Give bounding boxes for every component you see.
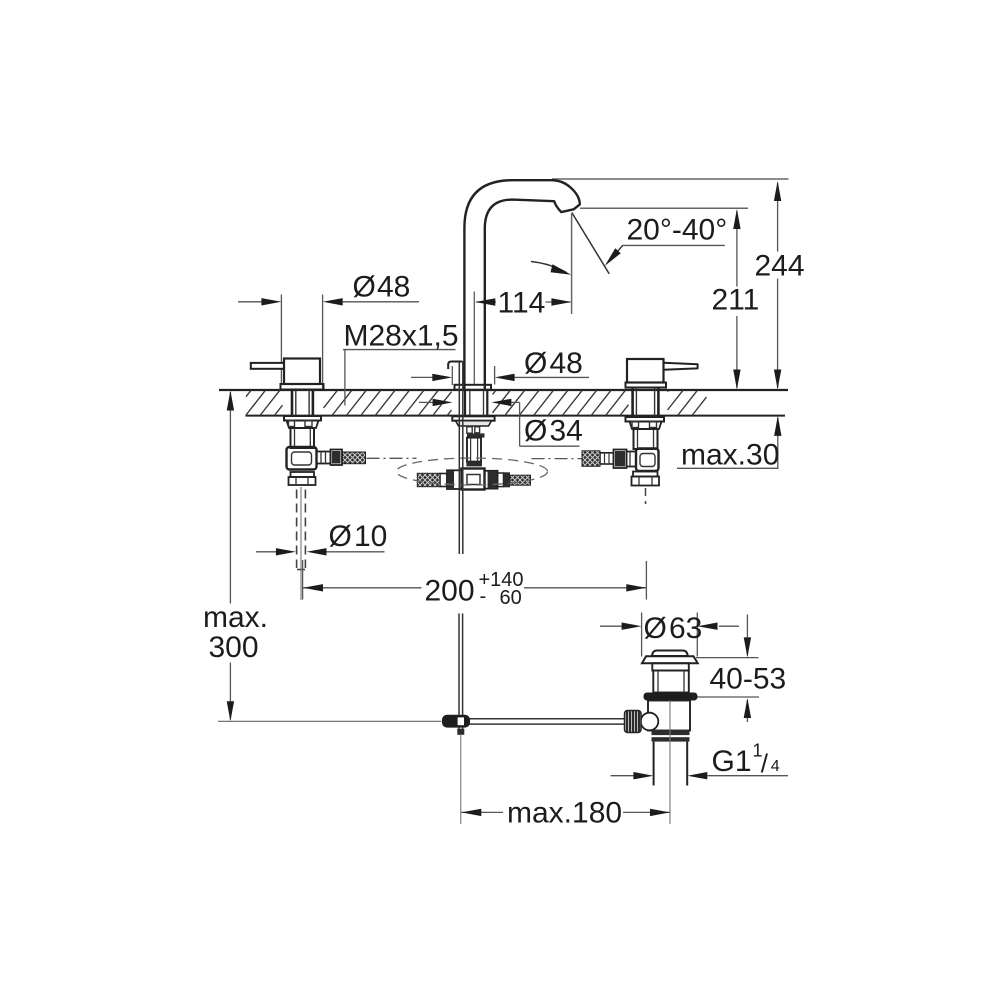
svg-text:48: 48 bbox=[550, 347, 583, 380]
svg-text:-: - bbox=[480, 586, 487, 608]
dimension dia10 bbox=[256, 551, 277, 553]
rod end cap bbox=[457, 729, 464, 735]
water stream angle line bbox=[572, 213, 609, 274]
mouth vertical extension line bbox=[571, 214, 573, 315]
left valve pipe centerline bbox=[300, 487, 302, 600]
right valve bottom nut bbox=[632, 477, 660, 486]
rod extension to max180 bbox=[460, 735, 462, 824]
dimension max.30 deck thickness bbox=[777, 418, 779, 469]
countertop deck top line bbox=[219, 389, 788, 391]
svg-text:Ø: Ø bbox=[524, 347, 547, 380]
dimension dia34 hole bbox=[419, 401, 434, 403]
left valve shank through deck bbox=[291, 390, 294, 416]
dimension 200 with tolerance bbox=[302, 560, 304, 600]
drain body bbox=[653, 671, 689, 693]
pop-up rod upper bbox=[458, 362, 460, 555]
dimension 244 bbox=[777, 183, 779, 252]
center locknut flange bbox=[452, 416, 494, 420]
left valve flange bbox=[281, 384, 324, 390]
angle arc with arrow bbox=[531, 262, 567, 273]
svg-text:max.180: max.180 bbox=[507, 797, 622, 830]
drain tailpipe bbox=[653, 742, 655, 786]
svg-text:40-53: 40-53 bbox=[710, 663, 787, 696]
drain flange bbox=[642, 656, 698, 663]
left valve body tube bbox=[291, 428, 315, 448]
left valve locknut flange below deck bbox=[284, 416, 321, 421]
left valve elbow bbox=[287, 447, 317, 470]
T-fitting block bbox=[462, 469, 485, 490]
svg-text:10: 10 bbox=[354, 520, 387, 553]
left valve bottom nut bbox=[289, 477, 316, 485]
svg-text:114: 114 bbox=[498, 287, 546, 320]
drain knurled knob bbox=[625, 711, 642, 733]
rod clamp bbox=[442, 715, 470, 728]
faucet spout body bbox=[464, 180, 579, 390]
left valve handle bbox=[251, 363, 284, 369]
svg-text:Ø: Ø bbox=[644, 612, 667, 645]
svg-text:48: 48 bbox=[377, 271, 410, 304]
deck hatching bbox=[246, 391, 707, 415]
countertop deck bottom line bbox=[246, 415, 786, 417]
right valve bottom ring bbox=[633, 472, 658, 477]
svg-text:Ø: Ø bbox=[524, 415, 547, 448]
center dark band 2 bbox=[466, 462, 482, 467]
left valve bottom ring bbox=[291, 472, 315, 477]
drain neck bbox=[652, 663, 689, 670]
drain inner rod / center extension bbox=[669, 701, 671, 825]
drain lower body bbox=[648, 701, 690, 731]
mouth level extension line bbox=[580, 207, 748, 209]
drain gasket (black) bbox=[644, 693, 698, 701]
svg-text:max.30: max.30 bbox=[681, 439, 779, 472]
dimension dia48 left bbox=[280, 295, 282, 384]
left valve hose hex nut bbox=[331, 450, 343, 466]
right valve dashed pipe stub bbox=[645, 488, 647, 504]
left valve hose braid bbox=[343, 452, 366, 464]
spout centerline extension bbox=[473, 292, 475, 385]
dimension G1 1/4 bbox=[611, 775, 634, 777]
rod level extension line bbox=[218, 720, 442, 722]
right hose centerline dash-dot bbox=[532, 458, 582, 460]
right valve hose hex bbox=[614, 450, 627, 469]
svg-text:/: / bbox=[761, 749, 769, 779]
drain bottom ring bbox=[652, 730, 690, 735]
right valve hose braid bbox=[582, 451, 600, 467]
svg-text:max.: max. bbox=[203, 601, 268, 634]
basin dashed ellipse bbox=[397, 458, 548, 485]
dimension dia48 center bbox=[451, 366, 453, 385]
svg-text:244: 244 bbox=[755, 250, 805, 283]
svg-text:300: 300 bbox=[209, 631, 259, 664]
right valve hose port rings bbox=[627, 452, 637, 467]
pop-up lever hook left of spout bbox=[448, 362, 462, 370]
svg-text:200: 200 bbox=[425, 575, 475, 608]
left hose centerline dash-dot bbox=[367, 457, 417, 459]
svg-text:60: 60 bbox=[500, 587, 522, 609]
svg-text:20°-40°: 20°-40° bbox=[627, 214, 728, 247]
dimension max.300 bbox=[229, 392, 231, 604]
right valve body tube bbox=[634, 429, 658, 449]
pop-up rod lower bbox=[458, 614, 460, 729]
right valve flange bbox=[626, 383, 667, 388]
center collar dark band bbox=[467, 433, 485, 437]
dimension 40-53 bbox=[696, 657, 759, 659]
T-fitting left rings bbox=[440, 474, 447, 487]
svg-text:G1: G1 bbox=[712, 745, 752, 778]
right valve shank bbox=[631, 388, 634, 417]
right valve locknut flange bbox=[626, 417, 665, 422]
svg-text:63: 63 bbox=[669, 612, 702, 645]
T-fitting right braid bbox=[510, 475, 531, 485]
right valve handle bbox=[664, 363, 698, 370]
svg-text:Ø: Ø bbox=[353, 271, 376, 304]
center shank through deck bbox=[464, 390, 466, 416]
svg-text:4: 4 bbox=[771, 758, 780, 775]
top extension line (spout top level, behind spout) bbox=[552, 178, 789, 180]
drain ball joint circle bbox=[641, 713, 659, 731]
horizontal pop-up rod bbox=[444, 718, 626, 720]
dimension dia63 bbox=[641, 613, 643, 657]
dimension 211 bbox=[736, 211, 738, 287]
T-fitting left braid bbox=[417, 473, 440, 486]
right valve hose rings2 bbox=[600, 453, 614, 464]
svg-text:211: 211 bbox=[712, 284, 760, 317]
T-fitting left hex bbox=[447, 470, 462, 489]
svg-text:34: 34 bbox=[550, 415, 583, 448]
left valve body bbox=[284, 359, 320, 385]
dimension max.180 bbox=[461, 811, 503, 813]
right valve elbow bbox=[636, 449, 659, 472]
left valve dashed inlet pipe bbox=[296, 490, 298, 569]
svg-text:M28x1,5: M28x1,5 bbox=[344, 320, 459, 353]
spout escutcheon flange bbox=[455, 385, 492, 390]
T-fitting right coupling bbox=[485, 471, 498, 489]
svg-text:Ø: Ø bbox=[329, 520, 352, 553]
center body tube bbox=[467, 438, 481, 462]
drain pop-up plug dome bbox=[652, 651, 688, 657]
left valve hose port rings bbox=[317, 452, 331, 464]
right valve body bbox=[627, 359, 664, 383]
